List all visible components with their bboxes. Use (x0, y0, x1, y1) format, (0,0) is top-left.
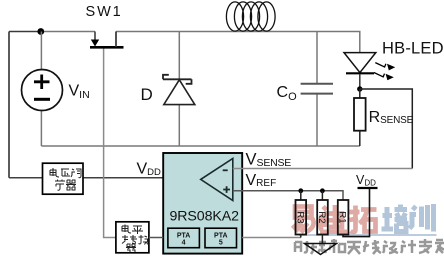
char 电 (line1) (50, 168, 81, 190)
char 线 (363, 240, 381, 254)
char 器 (126, 244, 136, 252)
char 器 (66, 180, 76, 190)
watermark grey text 射频和天线设计专家 (295, 239, 444, 254)
watermark logo blue text 培训 (299, 204, 437, 235)
light arrow 1 (375, 63, 386, 67)
wire: diode anode lead (178, 105, 180, 146)
char 换 (139, 235, 149, 245)
char 设 (383, 241, 398, 253)
wire: VIN bottom lead (40, 111, 42, 147)
svg-text:R2: R2 (316, 211, 327, 223)
char 培 (382, 205, 408, 232)
watermark logo red text 易迪拓 (293, 205, 377, 233)
wire: regulator output to micro VDD pin (83, 177, 164, 179)
wire: sense node to right vertical (360, 89, 413, 169)
svg-text:PTA: PTA (177, 233, 190, 240)
char 压 (61, 169, 70, 176)
char 节 (line2) (55, 180, 65, 191)
svg-text:9RS08KA2: 9RS08KA2 (170, 209, 240, 225)
op-amp comparator inside U1 (201, 159, 233, 201)
svg-text:HB-LED: HB-LED (382, 40, 444, 58)
pin PTA4 box (168, 228, 200, 248)
power VDD supply bar (358, 187, 378, 189)
char 拓 (350, 206, 377, 233)
light arrow 2 (374, 73, 385, 77)
ground triangle under R2 (305, 244, 337, 255)
resistor R1 (337, 188, 370, 237)
node junction dot VREF/R3 (298, 188, 303, 193)
diode D (schottky) (163, 75, 195, 105)
char 天 (347, 242, 361, 254)
pin PTA5 box (205, 228, 237, 248)
cathode bar with schottky hooks (163, 75, 192, 84)
source VIN (22, 70, 63, 111)
resistor R3 (294, 191, 306, 238)
anode triangle (164, 80, 195, 105)
capacitor CO plates (301, 84, 333, 94)
minus input mark (223, 169, 228, 171)
char 转 (122, 235, 137, 244)
wire: SW1 gate line down to level shifter (104, 49, 116, 238)
inductor L coil (226, 2, 275, 31)
plus sign (34, 75, 50, 90)
SW1 source corner and arrow (94, 32, 96, 41)
wire: level shifter output to PTA4 (149, 237, 163, 239)
resistor RSENSE (354, 89, 366, 146)
svg-text:D: D (141, 85, 153, 104)
IC U1 9RS08KA2 block (163, 153, 242, 254)
char 射 (295, 241, 309, 252)
svg-text:SW1: SW1 (86, 4, 123, 20)
wire: VIN top lead (40, 32, 42, 70)
char 调 (71, 169, 81, 178)
svg-text:5: 5 (219, 240, 223, 247)
wire: top rail from SW1 drain to LED, with corner down (116, 32, 360, 53)
SW1 drain lead (115, 32, 117, 48)
char 计 (401, 240, 416, 253)
wire: capacitor top lead (316, 32, 318, 84)
node junction dot LED / RSENSE (357, 86, 362, 91)
resistor R2 (316, 191, 328, 244)
char 专 (419, 239, 432, 253)
svg-text:PTA: PTA (214, 233, 227, 240)
plus input mark (223, 186, 230, 193)
char 平 (132, 226, 143, 234)
LED HB-LED (344, 53, 395, 89)
svg-text:R1: R1 (337, 211, 348, 223)
wire: comparator minus stub / VSENSE line (233, 168, 412, 170)
wire: capacitor bottom lead (316, 94, 318, 147)
wire: comparator plus stub / VREF line (233, 191, 343, 200)
wire: top rail left segment from corner to SW1 source (9, 31, 41, 33)
minus sign (34, 98, 50, 101)
transistor SW1 (90, 32, 124, 48)
char 家 (435, 240, 444, 253)
wire: regulator input horizontal (9, 177, 43, 179)
node junction dot at VIN branch (37, 28, 44, 35)
svg-text:4: 4 (182, 240, 186, 247)
svg-text:R3: R3 (294, 211, 305, 223)
logo underline (299, 234, 437, 236)
char 迪 (320, 205, 347, 232)
char 和 (329, 239, 345, 253)
char 电 (122, 225, 131, 234)
wire: diode cathode lead (178, 32, 180, 80)
SW1 channel bar (90, 46, 124, 49)
wire: left outer vertical down to regulator input (8, 32, 10, 178)
wire: bottom rail (41, 145, 359, 147)
voltage regulator box 电压调节器 (43, 163, 84, 194)
wire: top rail dot to SW1 (41, 31, 95, 33)
node junction dot VREF/R2 (320, 188, 325, 193)
level shifter box 电平转换器 (116, 222, 149, 253)
LED lead to sense node (359, 74, 361, 89)
wire: PTA5 stub to R3 bottom (242, 237, 301, 239)
char 易 (293, 207, 314, 233)
char 频 (311, 242, 326, 254)
char 训 (410, 204, 434, 232)
